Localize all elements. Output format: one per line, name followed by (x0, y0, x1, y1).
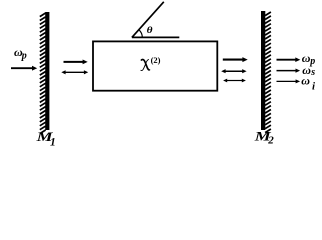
output arrow omega_p (277, 59, 297, 61)
intracavity arrow left top (right-pointing) (64, 61, 84, 63)
angle base line (132, 36, 179, 38)
svg-text:p: p (21, 51, 27, 62)
intracavity arrow right bottom (double-headed) (227, 80, 243, 82)
svg-text:2: 2 (267, 135, 274, 147)
svg-text:θ: θ (147, 26, 153, 36)
svg-text:ω: ω (301, 74, 310, 88)
crystal box chi(2) (93, 41, 217, 90)
mirror M2 bar (261, 11, 265, 130)
intracavity arrow right top (right-pointing) (223, 59, 243, 61)
angle slanted line (132, 2, 164, 38)
mirror M1 hatching (40, 13, 46, 134)
svg-text:1: 1 (50, 136, 56, 148)
angle arc (139, 30, 143, 38)
intracavity arrow right middle (double-headed) (225, 70, 243, 72)
mirror M2 hatching (265, 12, 271, 133)
label chi^(2) (141, 60, 150, 70)
output arrow omega_i (277, 80, 297, 82)
intracavity arrow left bottom (double-headed) (65, 71, 85, 73)
output arrow omega_s (277, 70, 297, 72)
svg-text:(2): (2) (151, 55, 161, 65)
svg-text:s: s (310, 67, 315, 78)
mirror M1 bar (45, 12, 49, 130)
input pump arrow (11, 67, 33, 69)
